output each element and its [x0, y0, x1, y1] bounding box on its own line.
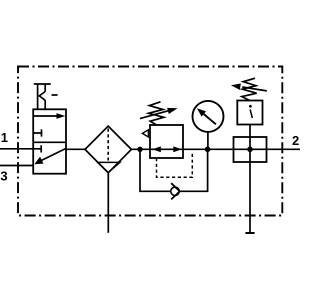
svg-text:1: 1: [1, 130, 8, 145]
svg-text:2: 2: [292, 133, 299, 148]
svg-text:3: 3: [0, 168, 7, 183]
